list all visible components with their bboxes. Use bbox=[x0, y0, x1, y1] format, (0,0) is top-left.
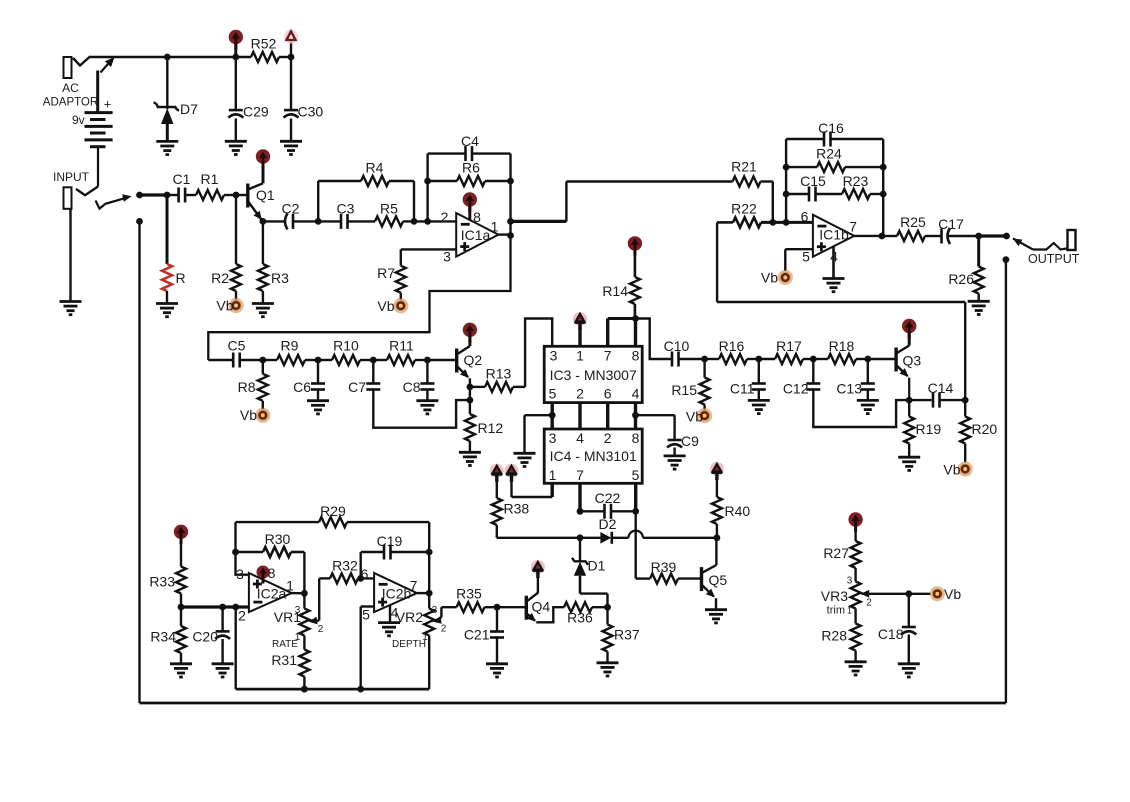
svg-text:5: 5 bbox=[549, 386, 557, 402]
svg-text:R32: R32 bbox=[332, 558, 358, 574]
svg-text:Q1: Q1 bbox=[256, 187, 275, 203]
svg-text:C5: C5 bbox=[228, 338, 246, 354]
svg-text:RATE: RATE bbox=[272, 639, 298, 650]
svg-text:Q5: Q5 bbox=[709, 572, 728, 588]
svg-text:R28: R28 bbox=[821, 628, 847, 644]
svg-text:C29: C29 bbox=[243, 104, 269, 120]
svg-text:R38: R38 bbox=[504, 501, 530, 517]
svg-text:R20: R20 bbox=[972, 421, 998, 437]
svg-text:8: 8 bbox=[473, 209, 481, 225]
svg-text:R37: R37 bbox=[614, 627, 640, 643]
svg-text:4: 4 bbox=[830, 249, 838, 265]
svg-text:R17: R17 bbox=[776, 338, 802, 354]
svg-text:C6: C6 bbox=[293, 379, 311, 395]
svg-text:R5: R5 bbox=[380, 201, 398, 217]
svg-text:2: 2 bbox=[441, 624, 447, 635]
svg-text:R9: R9 bbox=[281, 338, 299, 354]
svg-text:5: 5 bbox=[362, 607, 370, 623]
svg-text:R40: R40 bbox=[725, 503, 751, 519]
svg-text:IC4 - MN3101: IC4 - MN3101 bbox=[550, 448, 637, 464]
svg-text:C17: C17 bbox=[938, 216, 964, 232]
svg-text:2: 2 bbox=[866, 598, 872, 609]
svg-text:AC: AC bbox=[62, 81, 79, 95]
svg-text:3: 3 bbox=[550, 348, 558, 364]
svg-text:C21: C21 bbox=[464, 627, 490, 643]
svg-text:R15: R15 bbox=[671, 382, 697, 398]
svg-text:3: 3 bbox=[443, 249, 451, 265]
svg-text:R13: R13 bbox=[486, 366, 512, 382]
svg-text:C2: C2 bbox=[282, 201, 300, 217]
svg-text:D2: D2 bbox=[599, 516, 617, 532]
svg-text:5: 5 bbox=[802, 249, 810, 265]
svg-text:R24: R24 bbox=[816, 146, 842, 162]
svg-text:R35: R35 bbox=[456, 586, 482, 602]
svg-text:R19: R19 bbox=[916, 421, 942, 437]
svg-text:6: 6 bbox=[604, 386, 612, 402]
svg-text:3: 3 bbox=[432, 605, 438, 616]
svg-text:C22: C22 bbox=[595, 490, 621, 506]
svg-text:OUTPUT: OUTPUT bbox=[1028, 252, 1080, 266]
svg-text:R6: R6 bbox=[462, 160, 480, 176]
svg-text:3: 3 bbox=[549, 430, 557, 446]
svg-text:R23: R23 bbox=[843, 173, 869, 189]
svg-text:3: 3 bbox=[847, 576, 853, 587]
svg-text:IC2a: IC2a bbox=[257, 586, 287, 602]
svg-text:VR2: VR2 bbox=[396, 609, 423, 625]
svg-text:DEPTH: DEPTH bbox=[392, 639, 426, 650]
svg-text:C18: C18 bbox=[878, 626, 904, 642]
svg-text:4: 4 bbox=[632, 386, 640, 402]
svg-text:C3: C3 bbox=[337, 201, 355, 217]
svg-text:R11: R11 bbox=[389, 338, 414, 354]
svg-text:C30: C30 bbox=[298, 104, 324, 120]
svg-text:1: 1 bbox=[286, 578, 294, 594]
svg-text:R31: R31 bbox=[271, 652, 297, 668]
svg-text:2: 2 bbox=[604, 430, 612, 446]
svg-text:ADAPTOR: ADAPTOR bbox=[43, 97, 98, 109]
svg-text:4: 4 bbox=[576, 430, 584, 446]
svg-text:2: 2 bbox=[318, 624, 324, 635]
svg-text:C10: C10 bbox=[664, 338, 690, 354]
svg-text:IC3 - MN3007: IC3 - MN3007 bbox=[550, 367, 637, 383]
svg-text:VR3: VR3 bbox=[821, 588, 848, 604]
svg-text:R21: R21 bbox=[731, 159, 757, 175]
svg-text:R39: R39 bbox=[651, 559, 677, 575]
svg-text:2: 2 bbox=[238, 608, 246, 624]
svg-text:1: 1 bbox=[576, 348, 584, 364]
svg-text:C14: C14 bbox=[928, 380, 954, 396]
svg-text:Vb: Vb bbox=[944, 586, 961, 602]
svg-text:R10: R10 bbox=[333, 338, 359, 354]
svg-text:Q4: Q4 bbox=[532, 599, 551, 615]
svg-text:8: 8 bbox=[632, 348, 640, 364]
svg-text:6: 6 bbox=[361, 566, 369, 582]
svg-text:7: 7 bbox=[604, 348, 612, 364]
svg-text:R: R bbox=[176, 270, 186, 286]
svg-text:R25: R25 bbox=[900, 214, 926, 230]
svg-text:R4: R4 bbox=[366, 160, 384, 176]
svg-text:Vb: Vb bbox=[240, 407, 257, 423]
svg-text:C7: C7 bbox=[348, 379, 366, 395]
svg-text:2: 2 bbox=[576, 386, 584, 402]
svg-text:C1: C1 bbox=[173, 171, 191, 187]
svg-text:R34: R34 bbox=[150, 629, 176, 645]
svg-text:C12: C12 bbox=[783, 381, 809, 397]
svg-text:trim: trim bbox=[827, 605, 845, 617]
svg-text:3: 3 bbox=[295, 605, 301, 616]
svg-text:Vb: Vb bbox=[761, 270, 778, 286]
svg-text:C20: C20 bbox=[192, 629, 218, 645]
svg-text:R36: R36 bbox=[567, 610, 593, 626]
svg-text:C11: C11 bbox=[730, 381, 755, 397]
svg-text:8: 8 bbox=[268, 565, 276, 581]
svg-text:IC1a: IC1a bbox=[461, 227, 491, 243]
svg-text:+: + bbox=[104, 97, 112, 112]
svg-text:R2: R2 bbox=[211, 270, 229, 286]
svg-text:C13: C13 bbox=[836, 381, 862, 397]
svg-text:R12: R12 bbox=[478, 420, 504, 436]
svg-text:R27: R27 bbox=[823, 545, 849, 561]
svg-text:R26: R26 bbox=[948, 271, 974, 287]
svg-text:R7: R7 bbox=[377, 265, 395, 281]
svg-text:3: 3 bbox=[236, 566, 244, 582]
svg-text:1: 1 bbox=[491, 219, 499, 235]
svg-text:R8: R8 bbox=[238, 379, 256, 395]
svg-text:Vb: Vb bbox=[377, 298, 394, 314]
svg-text:6: 6 bbox=[801, 209, 809, 225]
svg-text:8: 8 bbox=[632, 430, 640, 446]
svg-text:Q3: Q3 bbox=[903, 353, 922, 369]
svg-text:C16: C16 bbox=[818, 120, 844, 136]
svg-text:9v: 9v bbox=[72, 113, 85, 127]
svg-text:R22: R22 bbox=[731, 201, 757, 217]
svg-text:1: 1 bbox=[549, 467, 557, 483]
svg-text:R52: R52 bbox=[251, 36, 277, 52]
svg-text:R29: R29 bbox=[320, 503, 346, 519]
svg-text:7: 7 bbox=[849, 219, 857, 235]
svg-text:Vb: Vb bbox=[943, 462, 960, 478]
svg-text:C9: C9 bbox=[681, 433, 699, 449]
svg-text:C19: C19 bbox=[377, 533, 403, 549]
svg-text:R18: R18 bbox=[829, 338, 855, 354]
svg-text:C15: C15 bbox=[800, 173, 826, 189]
svg-text:Vb: Vb bbox=[686, 409, 703, 425]
svg-text:R33: R33 bbox=[149, 574, 175, 590]
svg-text:C8: C8 bbox=[403, 379, 421, 395]
svg-text:R3: R3 bbox=[271, 270, 289, 286]
svg-text:Q2: Q2 bbox=[464, 352, 483, 368]
svg-text:1: 1 bbox=[847, 606, 852, 616]
svg-text:IC1b: IC1b bbox=[819, 227, 849, 243]
svg-text:7: 7 bbox=[576, 467, 584, 483]
svg-text:Vb: Vb bbox=[216, 298, 233, 314]
svg-text:IC2b: IC2b bbox=[382, 586, 412, 602]
svg-text:INPUT: INPUT bbox=[53, 170, 90, 184]
svg-text:D7: D7 bbox=[180, 101, 198, 117]
svg-text:5: 5 bbox=[632, 467, 640, 483]
svg-text:R30: R30 bbox=[265, 531, 291, 547]
svg-text:R14: R14 bbox=[602, 283, 628, 299]
svg-text:R1: R1 bbox=[201, 171, 219, 187]
svg-text:R16: R16 bbox=[719, 338, 745, 354]
svg-text:C4: C4 bbox=[461, 133, 479, 149]
svg-text:2: 2 bbox=[441, 209, 449, 225]
svg-text:D1: D1 bbox=[588, 558, 606, 574]
